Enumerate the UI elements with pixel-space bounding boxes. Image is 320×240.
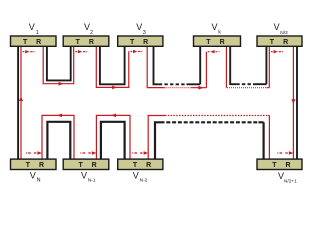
wire ellipsis dashed black bottom row: [161, 121, 260, 123]
node VN2 transceiver box: [257, 36, 302, 46]
wire left column red with up arrow: [20, 46, 22, 159]
svg-text:T: T: [206, 39, 211, 46]
wire U-link red V2.R to V3.T with right arrow: [96, 46, 129, 87]
node VN2+1 transceiver box: [257, 159, 302, 169]
internal signal arrow V3 (dash-dot right): [130, 51, 142, 53]
wire solid black to Vk.T leg: [187, 46, 201, 84]
svg-text:R: R: [89, 39, 94, 46]
wire ellipsis dotted red V3 to Vk: [164, 87, 191, 89]
internal signal arrow VN2+1 (dash-dot right): [277, 152, 287, 154]
svg-text:3: 3: [143, 30, 146, 36]
wire U-link black V1.R to V2.T: [47, 46, 71, 80]
wire ellipsis dashed black V3 to Vk: [159, 83, 187, 85]
wire right column red with down arrow: [292, 46, 294, 159]
svg-text:N: N: [37, 178, 41, 184]
svg-text:V: V: [81, 170, 87, 180]
wire solid black to VN2.T leg: [253, 46, 266, 84]
svg-text:R: R: [143, 39, 148, 46]
wire n-link black VN-1.R to VN-2.T: [101, 122, 125, 159]
svg-text:T: T: [133, 162, 138, 169]
svg-text:T: T: [130, 39, 135, 46]
node V1 transceiver box: [11, 36, 57, 46]
svg-text:V: V: [133, 170, 139, 180]
node V2 transceiver box: [63, 36, 109, 46]
wire Vk.R red leg down: [225, 46, 227, 87]
wire Vk.R leg black down: [230, 46, 236, 84]
svg-text:R: R: [220, 39, 225, 46]
wire ellipsis dotted red bottom row: [165, 115, 268, 117]
svg-text:T: T: [270, 39, 275, 46]
svg-text:R: R: [92, 162, 97, 169]
internal signal arrow VN-1 (dash-dot right): [80, 152, 90, 154]
wire solid red with right arrow into Vk corner: [191, 52, 206, 88]
svg-text:T: T: [23, 39, 28, 46]
svg-text:N/2: N/2: [280, 30, 288, 36]
wire U-link black V2.R to V3.T: [100, 46, 125, 84]
internal signal arrow V2 (dash-dot right): [75, 51, 87, 53]
svg-text:T: T: [76, 39, 81, 46]
wire right column black (VN2.R to VN2+1.R): [296, 46, 298, 159]
internal signal arrow VN-2 (dash-dot right): [132, 152, 142, 154]
node VN-2 transceiver box: [118, 159, 163, 169]
wire VN-2.R leg black up: [155, 122, 161, 159]
svg-text:1: 1: [36, 30, 39, 36]
wire n-link red VN-1.T to VN.R with left arrow: [42, 115, 74, 159]
wire ellipsis dotted red Vk to VN2: [227, 87, 267, 89]
wire left column black (V1.T to VN.T): [17, 46, 19, 159]
svg-text:R: R: [285, 162, 290, 169]
wire V3.R leg black down: [154, 46, 159, 84]
svg-text:V: V: [274, 22, 280, 32]
node V3 transceiver box: [118, 36, 163, 46]
wire ellipsis dashed black Vk to VN2: [236, 83, 253, 85]
svg-text:N/2+1: N/2+1: [284, 179, 297, 185]
svg-text:R: R: [36, 39, 41, 46]
svg-text:k: k: [218, 29, 221, 35]
internal signal arrow VN (dash-dot right): [26, 152, 36, 154]
wire solid red corner down into VN2+1.T: [268, 116, 269, 160]
svg-text:T: T: [26, 162, 31, 169]
internal signal arrow Vk (dash-dot left): [208, 51, 220, 53]
node Vk transceiver box: [194, 36, 241, 46]
wire n-link red VN-2.T to VN-1.R with left arrow: [96, 115, 130, 159]
internal signal arrow VN2 (dash-dot right): [271, 51, 283, 53]
node VN transceiver box: [11, 159, 57, 169]
svg-text:V: V: [136, 22, 142, 32]
wire solid black to VN2+1.T leg: [259, 122, 264, 159]
internal signal arrow V1 (dash-dot right): [23, 51, 35, 53]
svg-text:N-1: N-1: [88, 178, 96, 184]
wire V3.R red leg down and solid lead: [147, 46, 164, 87]
svg-text:R: R: [283, 39, 288, 46]
svg-text:N-2: N-2: [140, 178, 148, 184]
svg-text:R: R: [39, 162, 44, 169]
wire solid red corner up into VN2.T: [267, 46, 270, 87]
svg-text:V: V: [211, 22, 217, 32]
svg-text:V: V: [30, 170, 36, 180]
svg-text:R: R: [146, 162, 151, 169]
svg-text:T: T: [78, 162, 83, 169]
svg-text:2: 2: [90, 30, 93, 36]
wire U-link red V1.R to V2.T with right arrow: [43, 46, 73, 83]
wire n-link black VN.R to VN-1.T: [47, 122, 70, 159]
wire VN-2.R red leg up and solid lead: [148, 116, 165, 160]
svg-text:V: V: [29, 22, 35, 32]
node VN-1 transceiver box: [63, 159, 109, 169]
svg-text:T: T: [272, 162, 277, 169]
